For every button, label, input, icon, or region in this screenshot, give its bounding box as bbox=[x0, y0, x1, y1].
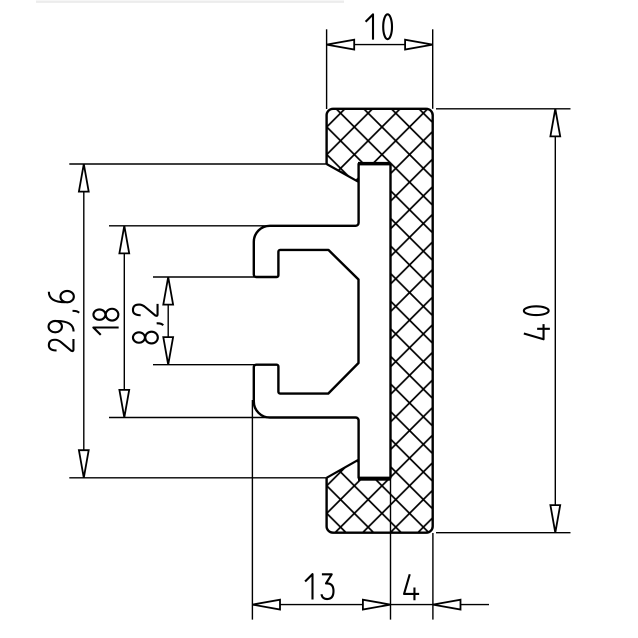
arrow 29,6 bottom bbox=[79, 450, 89, 478]
block outline bbox=[327, 109, 433, 533]
seal bottom contact thick line bbox=[358, 477, 391, 480]
extension line 8,2 bottom bbox=[153, 364, 257, 366]
dimension line 13 and 4 bbox=[252, 604, 489, 606]
faint scan streak at top edge bbox=[36, 1, 344, 3]
arrow 18 bottom bbox=[119, 390, 129, 418]
groove bottom chamfer bbox=[327, 460, 359, 478]
extension line 40 top bbox=[436, 108, 571, 110]
label 29,6 bbox=[49, 291, 80, 351]
label 4 bbox=[404, 574, 419, 600]
extension line 13 right / 4 left (crosses block) bbox=[390, 478, 392, 620]
groove top chamfer bbox=[327, 164, 359, 182]
extension line 10 right / 4 right upper bbox=[432, 29, 434, 109]
arrow 8,2 top bbox=[163, 277, 173, 305]
extension line 29,6 bottom / groove bottom face bbox=[69, 477, 326, 479]
extension line 40 bottom bbox=[436, 532, 571, 534]
arrow 13 right bbox=[363, 600, 391, 610]
arrow 18 top bbox=[119, 226, 129, 254]
arrow 13 left bbox=[252, 600, 280, 610]
label 8,2 bbox=[133, 304, 163, 344]
arrow 40 bottom bbox=[550, 505, 560, 533]
dimension line 10 bbox=[327, 44, 433, 46]
extension line 18 bottom bbox=[109, 417, 271, 419]
extension line 29,6 top / groove top face bbox=[69, 163, 326, 165]
extension line 4 right lower bbox=[432, 533, 434, 620]
extension line 18 top bbox=[109, 225, 271, 227]
extension line 13 left bbox=[251, 400, 253, 620]
arrow 8,2 bottom bbox=[163, 337, 173, 365]
label 13 bbox=[305, 574, 333, 599]
label 10 bbox=[366, 14, 392, 39]
seal top contact thick line bbox=[358, 162, 391, 165]
arrow 10 right bbox=[405, 40, 433, 50]
arrow 10 left bbox=[327, 40, 355, 50]
dimension line 8,2 bbox=[167, 277, 169, 365]
dimension line 29,6 bbox=[83, 164, 85, 478]
dimension line 40 bbox=[554, 109, 556, 533]
hatched block fill (channel cross-section) bbox=[327, 109, 433, 533]
extension line 8,2 top bbox=[153, 276, 257, 278]
label 18 bbox=[93, 309, 118, 335]
arrow 40 top bbox=[550, 109, 560, 137]
seal profile outline bbox=[254, 164, 391, 478]
extension line 10 left bbox=[326, 29, 328, 109]
label 40 bbox=[524, 306, 550, 339]
dimension line 18 bbox=[123, 226, 125, 418]
arrow 4 right (outside) bbox=[433, 600, 461, 610]
arrow 29,6 top bbox=[79, 164, 89, 192]
